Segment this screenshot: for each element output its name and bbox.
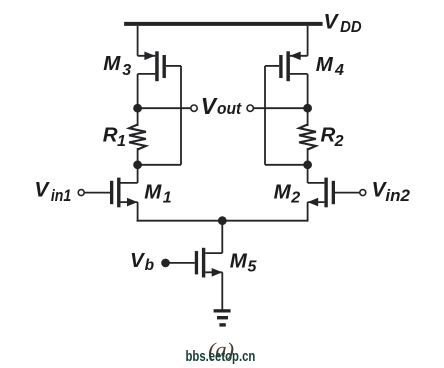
svg-text:V: V	[34, 178, 50, 201]
svg-text:3: 3	[122, 62, 131, 79]
svg-text:M: M	[316, 53, 334, 76]
svg-text:2: 2	[290, 190, 300, 207]
svg-text:bbs.eetop.cn: bbs.eetop.cn	[186, 348, 256, 365]
svg-text:out: out	[217, 100, 243, 118]
svg-text:M: M	[144, 180, 162, 203]
svg-text:M: M	[274, 181, 292, 204]
svg-text:V: V	[324, 11, 340, 34]
svg-text:5: 5	[248, 259, 258, 276]
svg-text:V: V	[130, 249, 146, 272]
svg-text:M: M	[103, 52, 121, 75]
svg-text:M: M	[230, 249, 248, 272]
svg-text:b: b	[145, 257, 155, 274]
svg-text:in1: in1	[51, 187, 71, 205]
svg-text:V: V	[201, 93, 218, 119]
svg-text:DD: DD	[340, 19, 362, 36]
svg-text:1: 1	[117, 133, 126, 150]
svg-text:R: R	[320, 124, 335, 147]
svg-text:in2: in2	[385, 187, 410, 205]
svg-text:4: 4	[334, 62, 344, 79]
svg-text:1: 1	[163, 189, 172, 206]
svg-text:2: 2	[334, 133, 344, 150]
svg-text:R: R	[103, 123, 118, 146]
